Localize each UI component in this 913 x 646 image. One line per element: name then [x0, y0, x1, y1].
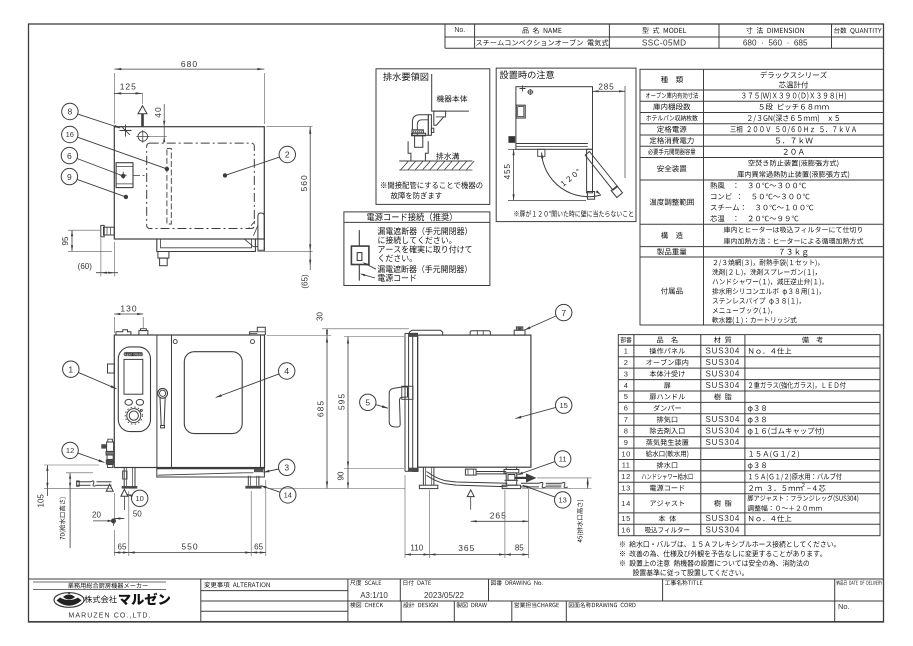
spec value 三相200V 50/60Hz 5.7kVA [730, 126, 856, 134]
svg-text:13: 13 [559, 496, 567, 505]
spec accessory line 6 [713, 307, 772, 315]
front bottom dim 65 550 65 [114, 480, 265, 556]
spec row 安全装置 [657, 165, 686, 172]
plan view door handle profile [245, 213, 265, 251]
side view front foot [419, 467, 437, 488]
svg-text:11: 11 [559, 455, 567, 464]
front view knob [125, 407, 142, 424]
plan view oven cavity dash-dot rect [147, 143, 255, 228]
svg-text:SUS304: SUS304 [705, 415, 740, 424]
spec accessory line 7 [712, 317, 796, 324]
dim 95 plan [61, 230, 112, 251]
parts row 10 給水口(軟水用) [621, 449, 798, 458]
svg-text:2: 2 [285, 150, 290, 160]
front view door screws [173, 340, 254, 344]
dim 90 side [336, 469, 404, 489]
installation box 設置時の注意 [496, 68, 636, 222]
side view water arrow symbol [467, 490, 474, 510]
spec value 73kg [780, 248, 808, 256]
front view water inlet arrow [121, 489, 128, 510]
svg-text:(60): (60) [78, 262, 93, 271]
footnote 3 [620, 560, 809, 567]
svg-text:95: 95 [61, 236, 70, 245]
spec accessory line 3 [713, 278, 824, 285]
front view water valve assembly [101, 439, 114, 467]
side view drain hex fitting [465, 469, 476, 475]
balloon 7 exhaust [556, 304, 572, 320]
dim 70 water inlet height [44, 473, 112, 548]
maker slogan 業務用総合厨房機器メーカー [33, 582, 166, 590]
svg-text:7: 7 [624, 415, 629, 424]
installation dim 285 [593, 83, 626, 178]
spec value デラックスシリーズ [760, 71, 826, 78]
svg-text:110: 110 [410, 544, 423, 553]
balloon 16 suction filter [62, 126, 78, 142]
dim 40 [149, 104, 167, 142]
svg-text:13: 13 [621, 484, 630, 493]
footnote 2 [620, 550, 822, 557]
parts row 12 ハンドシャワー給水口 [621, 472, 841, 481]
spec value 庫内異常過熱防止装置 [737, 171, 849, 178]
plan view water inlet fitting [101, 225, 115, 236]
front view top right fixture [250, 327, 266, 335]
parts row 11 排水口 [622, 461, 766, 470]
spec row 構造 [661, 232, 683, 239]
front view power cord dot [111, 518, 116, 523]
power cord box 電源コード接続 [344, 212, 490, 286]
installation title 設置時の注意 [500, 70, 554, 78]
svg-text:12: 12 [621, 472, 630, 481]
svg-text:No.: No. [838, 602, 850, 611]
plan view deliming port cross marker [120, 125, 132, 137]
drain detail title 排水要領図 [383, 72, 428, 80]
front view top left bracket [116, 330, 131, 335]
balloon 5 door handle [360, 394, 376, 410]
svg-text:2023/05/22: 2023/05/22 [424, 591, 465, 600]
parts row 16 吸込フィルター [621, 526, 740, 535]
parts row 14 アジャスト [621, 499, 731, 508]
drain note 間接配管 [381, 181, 482, 199]
front view door edges [172, 335, 261, 468]
spec value 熱風30-300 [710, 182, 806, 189]
svg-text:7: 7 [561, 308, 566, 318]
svg-text:560: 560 [299, 174, 309, 191]
installation note text [514, 210, 633, 217]
title block label 製図 DRAW [457, 602, 487, 607]
title strip 品名 NAME header [523, 27, 562, 33]
spec value コンビ50-300 [711, 193, 809, 199]
svg-text:SUS304: SUS304 [705, 427, 740, 436]
front view side exhaust stub [108, 364, 115, 373]
front view Super-Steam logo [124, 352, 144, 356]
side view drain outlet assembly [505, 475, 519, 481]
spec table grid [640, 69, 884, 325]
front view drip tray [157, 468, 265, 478]
parts row14 remark range [748, 505, 822, 511]
product name steam convection oven [476, 39, 608, 46]
drain elbow pipe [412, 115, 433, 136]
plan view damper [116, 163, 133, 188]
parts row 6 ダンパー [624, 404, 766, 413]
front view drain arrow symbol [106, 484, 113, 491]
plan view drain spout [158, 252, 169, 266]
spec value 空焚き防止装置 [748, 160, 838, 167]
side view drain pipe with break symbol [521, 482, 568, 487]
svg-text:8: 8 [68, 107, 73, 117]
svg-text:10: 10 [136, 494, 144, 503]
balloon 6 damper [61, 147, 77, 163]
label 電源コード with arrow [360, 274, 416, 282]
svg-text:8: 8 [624, 427, 629, 436]
svg-text:65: 65 [118, 542, 127, 551]
title block label 尺度 SCALE [350, 580, 381, 585]
spec value 芯温20-99 [710, 215, 798, 222]
front view top water fitting [139, 329, 148, 335]
dim 105 front [37, 465, 100, 507]
parts row 7 排気口 [624, 415, 766, 424]
svg-text:SUS304: SUS304 [705, 347, 740, 356]
side view rear foot [502, 467, 520, 488]
svg-text:14: 14 [284, 491, 292, 500]
plan view suction filter strip [167, 148, 171, 224]
plan view drip tray front [157, 239, 256, 252]
title block label 納品日 DATE OF DELIVERY [836, 580, 882, 585]
title block label 営業担当CHARGE [514, 602, 559, 607]
svg-text:A3:1/10: A3:1/10 [360, 591, 388, 600]
side view drain pipe shallow S [427, 472, 508, 487]
installation dim 455 [503, 149, 586, 200]
spec row 種類 label [661, 76, 683, 83]
power cord box title [367, 213, 452, 222]
svg-text:15: 15 [560, 401, 568, 410]
label 漏電遮断器 with arrow [363, 262, 467, 273]
spec value スチーム30-100 [711, 205, 813, 211]
title block label 設計 DESIGN [403, 602, 437, 607]
front view panel divider line [156, 335, 158, 468]
spec value 5段ピッチ68mm [760, 103, 829, 110]
dim 560 plan [257, 127, 312, 252]
svg-text:265: 265 [490, 510, 507, 520]
parts row 2 オーブン庫内 [624, 358, 740, 367]
side view top vent bump [470, 331, 490, 335]
svg-text:SUS304: SUS304 [705, 514, 740, 523]
parts row 1 操作パネル [624, 347, 792, 356]
front view left foot [122, 468, 138, 489]
balloon 15 body [556, 397, 572, 413]
parts row13 remark power cord spec [749, 483, 825, 491]
spec row 定格電源 [657, 126, 686, 133]
svg-text:90: 90 [336, 471, 345, 480]
parts row 3 本体汁受け [624, 369, 740, 378]
title block label 図番 DRAWING No. [491, 580, 543, 585]
balloon 4 door [279, 363, 295, 379]
parts row 4 扉 [624, 381, 846, 390]
spec accessory line 4 [712, 288, 821, 295]
side view drain direction arrow [515, 474, 536, 482]
svg-text:12: 12 [66, 446, 74, 455]
svg-text:4: 4 [284, 366, 289, 376]
svg-text:9: 9 [67, 172, 72, 182]
parts table grid [618, 335, 880, 536]
spec value 375x390x398 [742, 92, 846, 100]
svg-text:Super-Steam: Super-Steam [123, 352, 143, 356]
drain label 排水溝 [436, 152, 459, 159]
drain vertical pipe [415, 136, 423, 148]
spec row 庫内棚段数 [653, 103, 690, 110]
svg-text:130: 130 [120, 303, 137, 313]
installation 120 degree arc [541, 153, 601, 197]
svg-text:680: 680 [181, 59, 198, 69]
balloon 2 oven cavity [279, 146, 295, 162]
svg-text:105: 105 [37, 494, 46, 508]
parts row 13 電源コード [621, 484, 684, 493]
title block label 日付 DATE [404, 580, 431, 585]
plan view body outline [114, 127, 264, 239]
spec accessory line 2 [712, 269, 817, 276]
spec value 5.7kW [776, 137, 813, 143]
svg-text:10: 10 [621, 449, 630, 458]
side bottom dim 110 365 85 [405, 475, 529, 558]
svg-text:1: 1 [68, 364, 73, 374]
balloon 10 water inlet [132, 490, 148, 506]
front view panel buttons [125, 399, 132, 405]
title block label 工事名称TITLE [665, 580, 703, 585]
svg-text:14: 14 [621, 499, 630, 508]
svg-text:SUS304: SUS304 [705, 369, 740, 378]
drain funnel from machine [434, 111, 446, 125]
spec row 定格消費電力 [650, 137, 694, 144]
title block label 検図 CHECK [350, 602, 383, 607]
parts header 品名 [657, 336, 677, 343]
installation door open 120deg [585, 152, 622, 198]
svg-text:4: 4 [624, 381, 629, 390]
plan view damper duct dash line [133, 174, 147, 176]
svg-text:1: 1 [624, 347, 629, 356]
side view horizontal drain pipe [476, 472, 506, 474]
svg-text:9: 9 [624, 438, 629, 447]
svg-text:65: 65 [254, 542, 263, 551]
svg-text:16: 16 [621, 526, 630, 535]
svg-text:16: 16 [66, 130, 74, 139]
dim 595 [336, 337, 404, 469]
parts header 部番 [621, 337, 632, 343]
svg-text:11: 11 [622, 461, 631, 470]
front view right foot [245, 476, 261, 489]
dim 20 power cord [92, 510, 113, 526]
svg-text:3: 3 [624, 369, 629, 378]
front view supply pipe with break [77, 481, 112, 489]
balloon 14 adjust foot [280, 487, 296, 503]
installation 120deg label [560, 169, 581, 187]
title block label 変更事項 ALTERATION [204, 582, 269, 588]
side view handle mount plate [402, 386, 413, 399]
svg-text:SUS304: SUS304 [705, 438, 740, 447]
svg-text:680 · 560 · 685: 680 · 560 · 685 [743, 38, 808, 47]
spec value 芯温計付 [779, 81, 808, 88]
title block grid [29, 579, 884, 622]
spec accessory line 5 [713, 298, 801, 305]
spec value 2/3GN 深さ65mm x5 [748, 114, 839, 122]
parts row 8 除去剤入口 [624, 427, 824, 436]
side view top plate [409, 330, 442, 335]
dim 130 [114, 303, 143, 333]
svg-text:50: 50 [133, 510, 142, 519]
svg-text:365: 365 [458, 543, 475, 553]
svg-text:685: 685 [316, 400, 326, 417]
svg-text:455: 455 [503, 163, 512, 179]
balloon 1 control panel [63, 361, 79, 377]
company name 株式会社マルゼン [84, 593, 170, 605]
spec accessory line 1 [714, 259, 820, 266]
spec value 20A [784, 149, 804, 155]
front view body outline [114, 335, 264, 468]
side view exhaust stack [514, 327, 525, 335]
svg-text:No.: No. [454, 27, 465, 34]
svg-text:85: 85 [515, 544, 524, 553]
maruzen logo mark [54, 592, 84, 607]
installation door open 90deg [587, 149, 595, 199]
spec value 庫内とヒーター仕切り [724, 226, 862, 232]
dim 685 [267, 336, 406, 489]
footnote 1 [620, 541, 836, 548]
parts header 備考 [802, 336, 823, 343]
drain ditch [408, 141, 428, 161]
svg-text:20: 20 [92, 510, 101, 519]
spec value 庫内加熱方法 [724, 238, 864, 244]
side view door slab [405, 333, 419, 471]
drain coupling band [412, 130, 426, 136]
balloon 8 deliming inlet [62, 103, 78, 119]
title strip 台数 QUANTITY header [834, 27, 882, 34]
side view body outline [418, 335, 531, 467]
plan view cavity corner chamfer [249, 221, 256, 229]
title block label 図面名称DRAWING CORD [569, 602, 636, 607]
balloon 13 power cord [555, 492, 571, 508]
spec row 付属品 [661, 287, 683, 294]
balloon 9 steam generator [61, 168, 77, 184]
svg-text:3: 3 [284, 463, 289, 473]
svg-text:SUS304: SUS304 [705, 526, 740, 535]
ground line with hatching [399, 161, 474, 170]
dim 50 water inlet [114, 493, 142, 524]
svg-text:595: 595 [336, 393, 346, 410]
title strip 型式 MODEL header [642, 27, 686, 33]
front view control panel bezel [118, 347, 150, 432]
dim 125 [114, 82, 142, 105]
balloon 12 hand shower inlet [62, 442, 78, 458]
spec row 必要手元開閉器容量 [648, 148, 695, 154]
drain detail box 排水要領図 [376, 69, 490, 205]
spec row ホテルパン収納枚数 [646, 115, 697, 121]
installation oven top view [509, 86, 593, 157]
front view door window [184, 352, 242, 434]
svg-text:SUS304: SUS304 [705, 381, 740, 390]
svg-text:15: 15 [621, 514, 630, 523]
side view door handle profile [389, 387, 407, 427]
dim 265 [471, 510, 529, 522]
drain label 機器本体 [437, 95, 468, 102]
footnote 4 [633, 569, 744, 576]
spec row オーブン庫内有効寸法 [646, 92, 698, 98]
parts row 9 蒸気発生装置 [624, 438, 740, 447]
plan view steam vent arrow symbol [138, 106, 147, 127]
balloon 11 drain outlet [555, 451, 571, 467]
svg-text:285: 285 [598, 83, 614, 92]
balloon 3 drip tray [279, 459, 295, 475]
title strip 寸法 DIMENSION header [746, 27, 804, 33]
dim 680 [114, 59, 264, 124]
svg-text:5: 5 [624, 392, 629, 401]
dim 30 top [315, 312, 409, 336]
breaker symbol [351, 230, 369, 281]
parts row14 remark adjust leg [748, 495, 859, 502]
title strip table [445, 24, 884, 48]
dim (60) plan [78, 238, 118, 277]
svg-text:5: 5 [365, 398, 370, 408]
parts row 5 扉ハンドル [624, 392, 732, 401]
spec row 製品重量 [657, 248, 686, 255]
svg-text:MARUZEN CO.,LTD.: MARUZEN CO.,LTD. [68, 612, 151, 619]
svg-text:6: 6 [624, 404, 629, 413]
power cord instruction text [378, 227, 472, 262]
svg-text:6: 6 [67, 151, 72, 161]
front view display [124, 359, 143, 394]
dim (65) plan [301, 251, 312, 288]
drain machine body outline [432, 74, 469, 111]
svg-text:30: 30 [315, 312, 324, 321]
parts row 15 本 体 [621, 514, 791, 523]
spec row 温度調整範囲 [650, 198, 694, 205]
plan view exhaust circle marker [136, 130, 149, 143]
svg-text:(65): (65) [301, 274, 310, 289]
dim 45 drain height [522, 478, 592, 543]
svg-text:2: 2 [624, 358, 629, 367]
svg-text:SUS304: SUS304 [705, 358, 740, 367]
front view door handle [158, 388, 168, 428]
svg-text:40: 40 [153, 106, 163, 117]
parts header 材質 [714, 336, 731, 343]
svg-text:SSC-05MD: SSC-05MD [642, 38, 687, 47]
svg-text:550: 550 [181, 542, 198, 552]
svg-text:125: 125 [120, 82, 137, 92]
